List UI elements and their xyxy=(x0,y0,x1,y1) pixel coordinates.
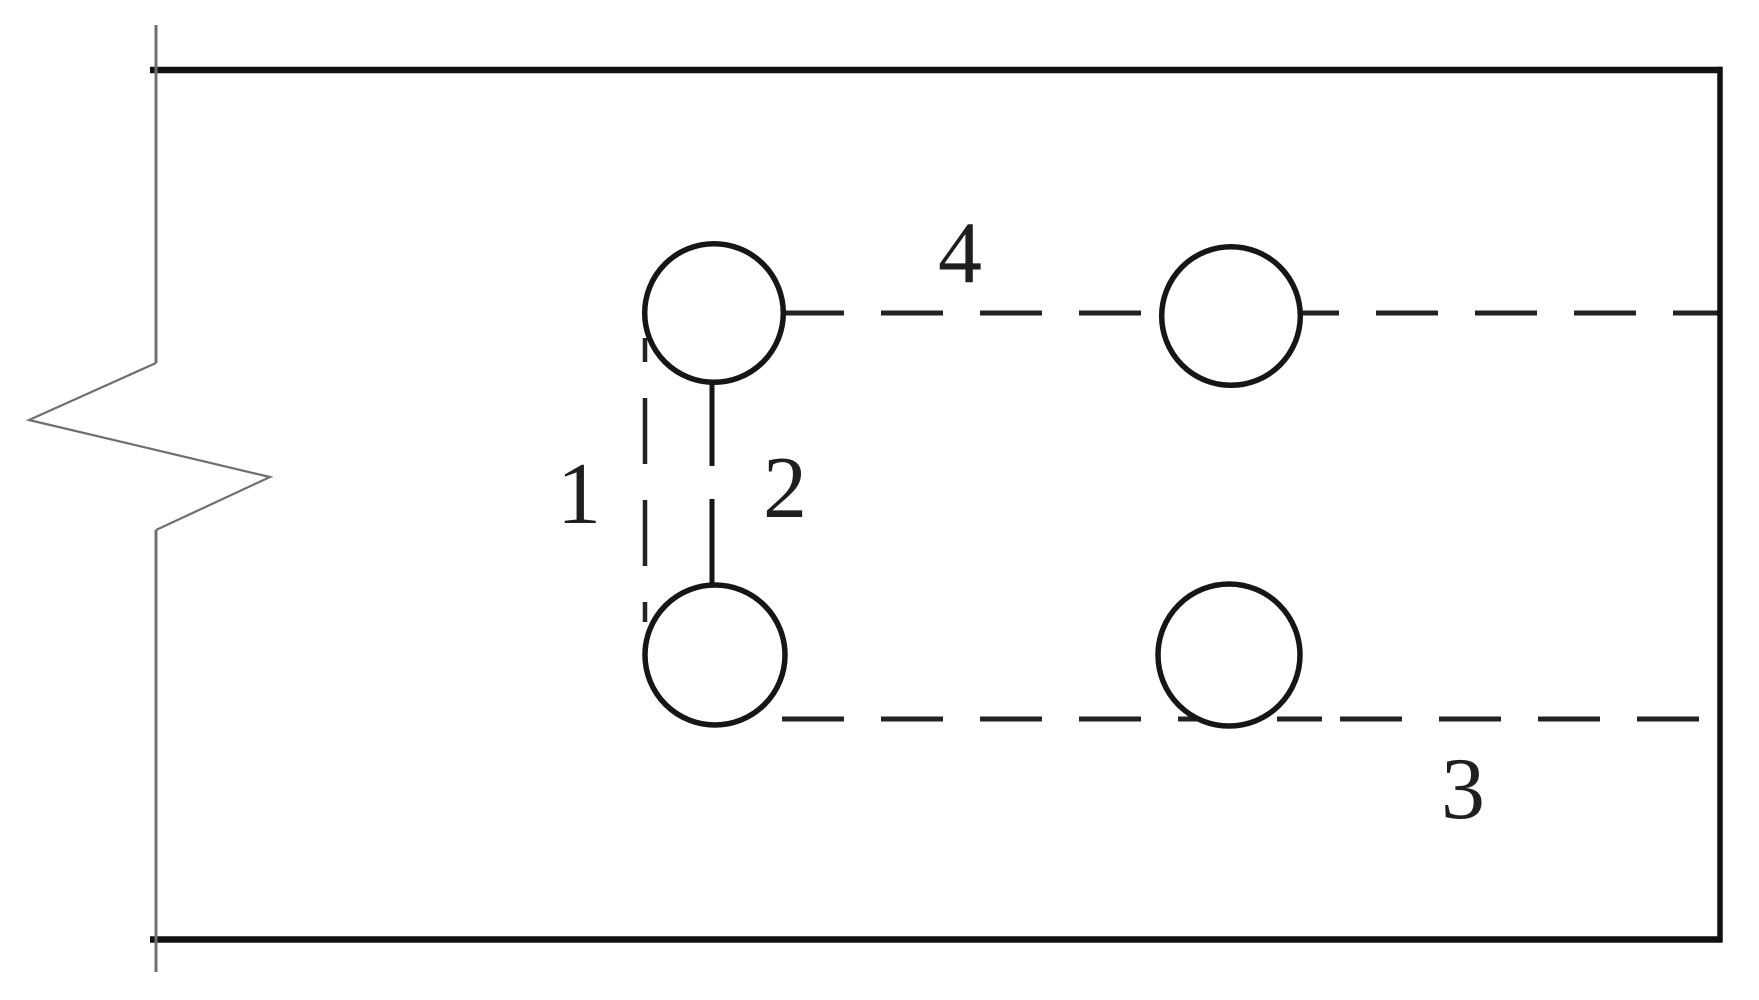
plate right edge xyxy=(1717,67,1723,943)
bolt hole bottom-right xyxy=(1158,584,1300,726)
plate bottom edge xyxy=(150,936,1722,943)
bolt hole top-right xyxy=(1162,247,1301,386)
failure path 2 (solid vertical line between left holes) xyxy=(710,384,715,587)
bolt hole top-left xyxy=(645,244,784,383)
break symbol zigzag xyxy=(29,363,270,530)
plate left cut line (upper) xyxy=(155,25,158,363)
plate left cut line (lower) xyxy=(155,530,158,972)
plate top edge xyxy=(150,67,1722,74)
svg-text:2: 2 xyxy=(763,440,807,537)
svg-text:3: 3 xyxy=(1441,741,1485,838)
failure path 1 (dashed vertical tangent line) xyxy=(643,338,648,622)
failure path 3 (dashed tangent under bottom holes, right half) xyxy=(1340,717,1720,722)
failure path 3 (dashed tangent under bottom holes, left half) xyxy=(745,717,1322,722)
bolt hole bottom-left xyxy=(645,585,785,725)
svg-text:1: 1 xyxy=(557,446,601,543)
svg-text:4: 4 xyxy=(938,205,982,302)
centerline 4 (dashed through top holes) xyxy=(782,311,1720,316)
